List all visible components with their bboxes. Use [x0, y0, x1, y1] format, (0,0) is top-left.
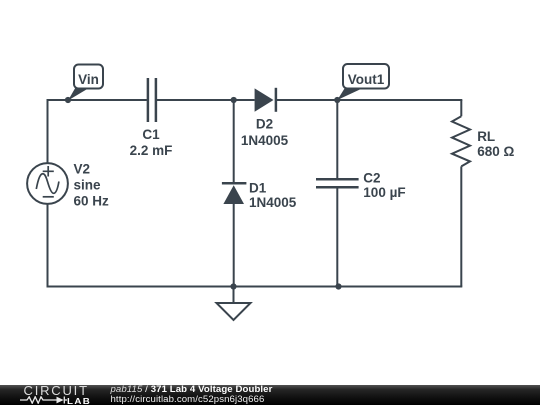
- svg-text:Vin: Vin: [78, 72, 99, 87]
- svg-text:680 Ω: 680 Ω: [477, 144, 514, 159]
- svg-text:D1: D1: [249, 180, 267, 195]
- svg-text:100 µF: 100 µF: [363, 185, 405, 200]
- svg-text:D2: D2: [256, 117, 273, 132]
- svg-text:C1: C1: [142, 127, 160, 142]
- svg-text:V2: V2: [74, 162, 91, 177]
- svg-text:1N4005: 1N4005: [241, 133, 289, 148]
- svg-text:1N4005: 1N4005: [249, 195, 297, 210]
- svg-text:2.2 mF: 2.2 mF: [130, 143, 173, 158]
- svg-text:60 Hz: 60 Hz: [74, 194, 110, 209]
- svg-text:Vout1: Vout1: [348, 72, 385, 87]
- svg-text:RL: RL: [477, 129, 495, 144]
- svg-text:sine: sine: [74, 178, 102, 193]
- svg-text:C2: C2: [363, 170, 380, 185]
